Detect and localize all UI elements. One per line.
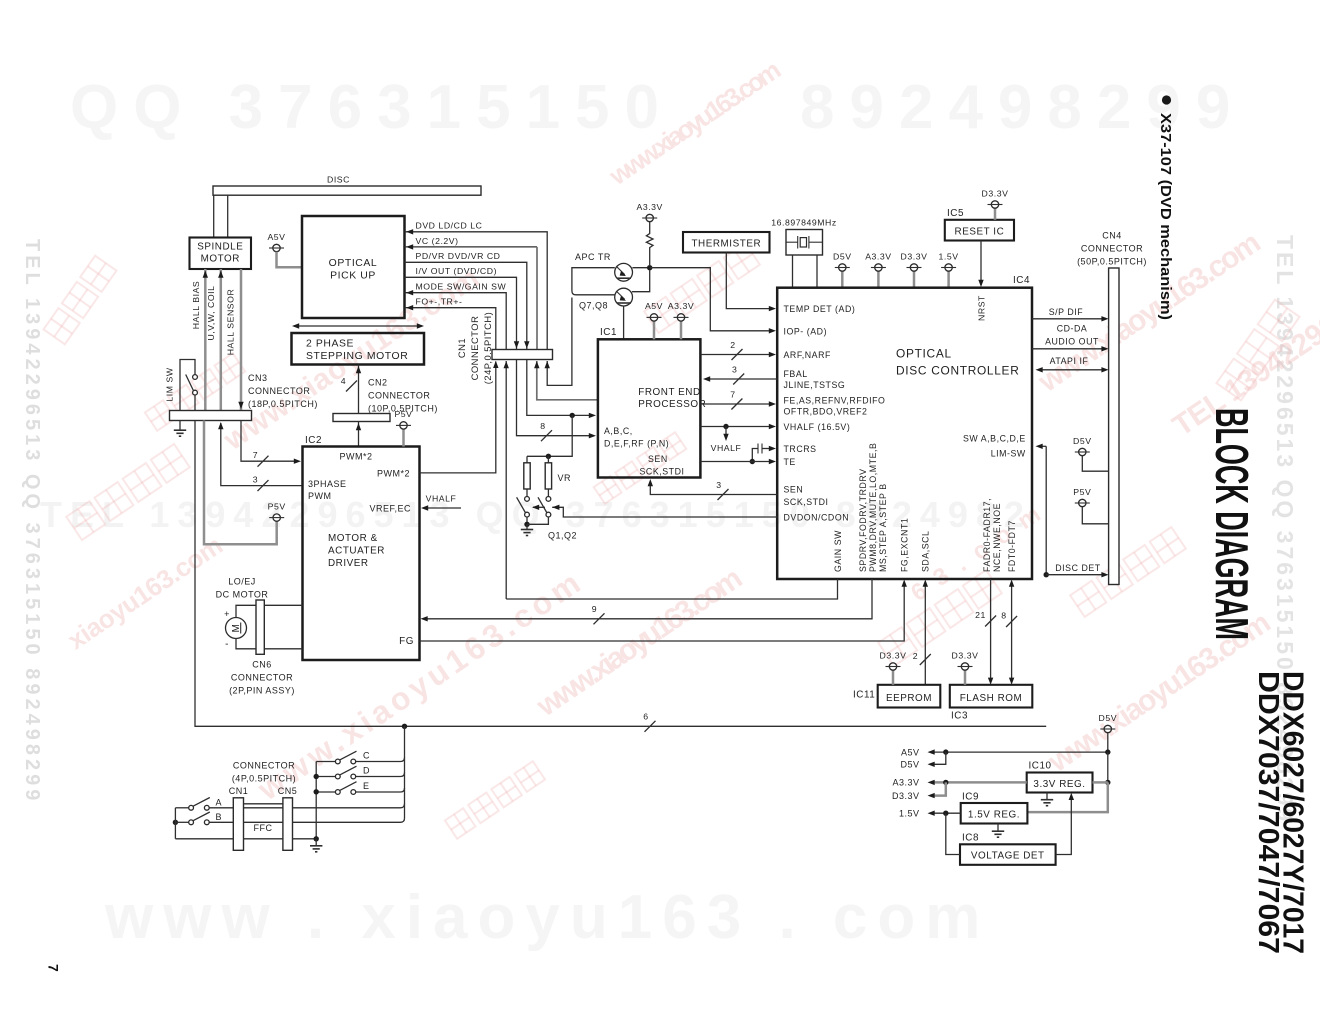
svg-text:D: D: [363, 766, 370, 776]
wire IC2 PWM*2 to CN1 focus drive: [420, 362, 496, 473]
wire IC1 to IC4 TE: [700, 461, 769, 463]
svg-text:TEMP DET (AD): TEMP DET (AD): [784, 304, 856, 314]
svg-text:IC9: IC9: [962, 792, 979, 803]
svg-text:www . xiaoyu163 . com: www . xiaoyu163 . com: [104, 883, 990, 952]
svg-text:CONNECTOR: CONNECTOR: [469, 316, 480, 381]
svg-text:Q1,Q2: Q1,Q2: [548, 531, 577, 541]
svg-text:STEPPING MOTOR: STEPPING MOTOR: [306, 351, 408, 362]
svg-text:PD/VR DVD/VR CD: PD/VR DVD/VR CD: [416, 251, 501, 261]
svg-text:ATAPI IF: ATAPI IF: [1050, 356, 1089, 366]
wire stepping motor to CN2 bus 4: [358, 365, 360, 414]
2 phase stepping motor box: [292, 333, 425, 365]
wire voltage det to 3.3V reg: [1056, 796, 1072, 854]
wire IC1 to IC4 VHALF: [700, 426, 769, 428]
svg-text:PROCESSOR: PROCESSOR: [638, 399, 706, 410]
svg-text:BLOCK DIAGRAM: BLOCK DIAGRAM: [1206, 408, 1258, 640]
optical pickup box: [302, 216, 405, 318]
svg-text:DVD LD/CD LC: DVD LD/CD LC: [416, 221, 483, 231]
svg-text:SEN: SEN: [784, 484, 804, 494]
svg-text:SDA,SCL: SDA,SCL: [921, 531, 931, 573]
svg-text:D3.3V: D3.3V: [901, 251, 928, 261]
svg-text:7: 7: [253, 450, 258, 460]
IC1 front end processor box: [598, 339, 701, 477]
svg-text:21: 21: [975, 610, 986, 620]
svg-text:DC MOTOR: DC MOTOR: [216, 590, 269, 600]
svg-text:(4P,0.5PITCH): (4P,0.5PITCH): [232, 774, 296, 784]
svg-text:P5V: P5V: [394, 409, 412, 419]
variable resistor VR pair: [526, 456, 528, 463]
wire IC4 to IC1 FBAL bus 3: [707, 378, 778, 380]
svg-text:OPTICAL: OPTICAL: [896, 347, 952, 361]
svg-text:TE: TE: [784, 457, 796, 467]
svg-text:ARF,NARF: ARF,NARF: [784, 350, 831, 360]
svg-text:GAIN SW: GAIN SW: [833, 530, 843, 572]
svg-text:HALL SENSOR: HALL SENSOR: [226, 289, 236, 356]
svg-text:IC5: IC5: [947, 208, 964, 219]
wire DISC DET: [1044, 572, 1049, 577]
switch commons to ground: [526, 517, 528, 524]
ground 3.3V reg: [1046, 793, 1048, 800]
wire IC4 FADR bus 21 to flash: [990, 579, 992, 681]
svg-text:(2P,PIN ASSY): (2P,PIN ASSY): [229, 686, 295, 696]
svg-text:LIM-SW: LIM-SW: [991, 448, 1026, 458]
switch A: [175, 807, 188, 809]
wire CN3 hall sensor to IC2 bus 7: [241, 421, 296, 462]
wire IC4 servo bus 9 to IC2: [424, 579, 873, 619]
wire VC from front end to CN1: [537, 361, 598, 400]
svg-text:FRONT END: FRONT END: [638, 387, 700, 398]
svg-text:TEL 13942296513 QQ 376315150 8: TEL 13942296513 QQ 376315150 892498299: [21, 239, 43, 804]
rail D5V down to regulators: [1107, 752, 1109, 782]
wire Q7 collector to junction: [632, 267, 649, 269]
svg-text:(24P,0.5PITCH): (24P,0.5PITCH): [482, 312, 493, 384]
CN5 ffc bar: [283, 798, 293, 851]
switch C: [316, 761, 335, 763]
svg-text:7: 7: [730, 390, 735, 400]
wire Q8 emitter to IC1: [623, 306, 625, 339]
svg-text:PWM: PWM: [308, 491, 332, 501]
svg-text:IC4: IC4: [1013, 275, 1030, 286]
svg-text:CONNECTOR: CONNECTOR: [231, 673, 293, 683]
switch D: [316, 776, 335, 778]
svg-text:VHALF: VHALF: [711, 443, 742, 453]
svg-text:IC2: IC2: [305, 435, 322, 446]
dc motor symbol: [226, 618, 247, 639]
svg-text:CONNECTOR: CONNECTOR: [248, 386, 310, 396]
svg-text:3.3V REG.: 3.3V REG.: [1033, 779, 1085, 790]
switch ground bus: [315, 762, 317, 840]
disc platter bar: [213, 186, 481, 195]
svg-text:FG: FG: [399, 636, 414, 647]
svg-text:A3.3V: A3.3V: [636, 202, 662, 212]
svg-text:D5V: D5V: [900, 760, 919, 770]
svg-text:D5V: D5V: [1073, 436, 1092, 446]
wire APC junction to IC4 IOP: [650, 268, 770, 331]
wire CN1 to front end bus 8: [517, 360, 593, 436]
svg-text:CONNECTOR: CONNECTOR: [368, 391, 430, 401]
svg-text:MOTOR: MOTOR: [201, 254, 240, 265]
svg-text:FFC: FFC: [254, 823, 273, 833]
svg-text:-: -: [225, 639, 229, 650]
svg-text:PWM8,DRV,MUTE,LO,MTE,B: PWM8,DRV,MUTE,LO,MTE,B: [868, 443, 878, 572]
svg-text:FE,AS,REFNV,RFDIFO: FE,AS,REFNV,RFDIFO: [784, 396, 886, 406]
svg-text:LIM SW: LIM SW: [165, 367, 175, 401]
svg-text:LO/EJ: LO/EJ: [228, 577, 256, 587]
svg-text:P5V: P5V: [268, 501, 286, 511]
svg-text:S/P DIF: S/P DIF: [1049, 307, 1084, 317]
svg-text:A: A: [216, 797, 223, 807]
svg-text:DVDON/CDON: DVDON/CDON: [784, 512, 850, 522]
svg-text:THERMISTER: THERMISTER: [691, 238, 761, 249]
svg-text:D5V: D5V: [833, 251, 852, 261]
svg-text:MODE SW/GAIN SW: MODE SW/GAIN SW: [416, 282, 507, 292]
svg-text:MS,STEP A,STEP B: MS,STEP A,STEP B: [878, 483, 888, 572]
svg-text:D3.3V: D3.3V: [952, 650, 979, 660]
CN2 connector bar: [333, 414, 390, 422]
svg-text:RESET IC: RESET IC: [955, 226, 1005, 237]
svg-text:CN1: CN1: [456, 338, 467, 358]
svg-text:CN3: CN3: [248, 373, 268, 383]
svg-text:C: C: [363, 751, 370, 761]
svg-text:VREF,EC: VREF,EC: [369, 504, 411, 514]
svg-text:8: 8: [1001, 611, 1006, 621]
CN3 connector bar: [170, 411, 252, 421]
transistor switch Q1: [525, 497, 530, 502]
svg-text:IC8: IC8: [962, 833, 979, 844]
CN3 ground: [179, 421, 181, 430]
svg-text:U,V,W, COIL: U,V,W, COIL: [206, 286, 216, 341]
FFC cable box: [244, 803, 283, 805]
svg-text:7: 7: [46, 964, 62, 972]
svg-text:PWM*2: PWM*2: [339, 452, 372, 462]
svg-text:1.5V: 1.5V: [899, 809, 920, 819]
svg-text:VHALF (16.5V): VHALF (16.5V): [784, 422, 851, 432]
wire IC1 to IC4 ARF bus 2: [700, 354, 769, 356]
svg-text:CN4: CN4: [1102, 231, 1122, 241]
wire CN1 to front end A,B,C bus: [527, 360, 592, 416]
wire Q8 to junction: [632, 270, 650, 292]
CN1 connector bar: [492, 350, 553, 360]
svg-text:A5V: A5V: [901, 747, 920, 757]
svg-text:IC1: IC1: [600, 327, 617, 338]
svg-text:+: +: [224, 609, 230, 619]
svg-text:3: 3: [716, 480, 721, 490]
CN1 ffc bar: [233, 798, 243, 851]
wire hall bias: [204, 269, 207, 411]
svg-text:6: 6: [643, 712, 648, 722]
thermister box: [683, 232, 770, 253]
wire reset to IC4 NRST: [980, 241, 982, 284]
svg-text:SEN: SEN: [648, 454, 668, 464]
svg-text:3: 3: [253, 474, 258, 484]
svg-text:DDX6027/6027Y/7017: DDX6027/6027Y/7017: [1277, 671, 1309, 954]
svg-text:FO+-,TR+-: FO+-,TR+-: [416, 297, 463, 307]
svg-text:A3.3V: A3.3V: [865, 251, 891, 261]
svg-text:CONNECTOR: CONNECTOR: [233, 761, 295, 771]
svg-text:P5V: P5V: [1073, 487, 1091, 497]
wire ground row to ground: [293, 838, 317, 840]
svg-text:VHALF: VHALF: [426, 494, 457, 504]
svg-text:SCK,STDI: SCK,STDI: [784, 497, 829, 507]
svg-text:FDT0-FDT7: FDT0-FDT7: [1007, 520, 1017, 572]
wire IC4 FDT bus 8 to flash: [1011, 583, 1013, 681]
wire D3.3V distribution: [931, 782, 946, 795]
spindle shaft wires: [213, 195, 215, 237]
svg-text:SPDRV,FODRV,TRDRV: SPDRV,FODRV,TRDRV: [858, 468, 868, 572]
svg-text:A5V: A5V: [645, 301, 663, 311]
svg-text:FLASH ROM: FLASH ROM: [960, 693, 1023, 704]
sled travel double arrow: [294, 325, 422, 327]
svg-text:VR: VR: [558, 473, 572, 483]
svg-text:D3.3V: D3.3V: [880, 650, 907, 660]
resistor R laser bias: [646, 222, 653, 265]
svg-text:X37-107 (DVD mechanism): X37-107 (DVD mechanism): [1157, 113, 1174, 320]
svg-text:CD-DA: CD-DA: [1057, 324, 1088, 334]
switch sense branch: [404, 726, 406, 818]
wire CN3 to P5V: [204, 421, 277, 545]
switch A B left bus: [174, 808, 176, 839]
svg-text:2 PHASE: 2 PHASE: [306, 339, 354, 350]
CN6 connector bar: [256, 600, 264, 654]
svg-text:APC TR: APC TR: [575, 252, 611, 262]
switch B: [173, 820, 178, 825]
wire IC1 to IC4 FE bus 7: [700, 403, 769, 405]
wire Q7 base loop to Q8: [572, 268, 615, 295]
svg-text:SPINDLE: SPINDLE: [197, 242, 243, 253]
wire A,B,C branch to VR: [527, 415, 572, 456]
wire motor to CN6 to IC2 top: [236, 605, 303, 617]
svg-text:9: 9: [592, 604, 597, 614]
wire UVW coil: [220, 269, 223, 411]
svg-text:3: 3: [732, 365, 737, 375]
svg-text:2: 2: [730, 340, 735, 350]
svg-text:QQ 376315150: QQ 376315150: [70, 73, 674, 142]
switch E: [316, 791, 335, 793]
VHALF stub arrow: [725, 427, 727, 438]
svg-text:ACTUATER: ACTUATER: [328, 546, 385, 557]
svg-text:Q7,Q8: Q7,Q8: [579, 301, 608, 311]
svg-text:IC10: IC10: [1029, 761, 1052, 772]
svg-text:1.5V: 1.5V: [939, 251, 959, 261]
svg-text:(18P,0.5PITCH): (18P,0.5PITCH): [248, 399, 318, 409]
svg-text:JLINE,TSTSG: JLINE,TSTSG: [784, 380, 846, 390]
IC4 optical disc controller box: [777, 288, 1032, 579]
svg-text:4: 4: [341, 376, 346, 386]
wire D5V distribution: [931, 752, 946, 764]
wire 1.5V distribution: [931, 812, 961, 814]
svg-text:IC3: IC3: [951, 711, 968, 722]
right margin title X37-107 DVD mechanism: [1162, 95, 1171, 104]
wire thermister to IC4 temp det: [726, 253, 770, 309]
svg-text:VC (2.2V): VC (2.2V): [416, 236, 459, 246]
svg-text:E: E: [363, 781, 370, 791]
svg-text:NCE,NWE,NOE: NCE,NWE,NOE: [992, 503, 1002, 572]
svg-text:2: 2: [913, 651, 918, 661]
svg-text:AUDIO OUT: AUDIO OUT: [1045, 337, 1099, 347]
wire IC2 FG to IC4: [420, 583, 905, 641]
wire VHALF into IC2 VREF,EC: [424, 507, 461, 509]
wire laser drive from APC to CN1: [547, 298, 572, 386]
spindle motor box: [190, 238, 252, 270]
wire IC4 DVDON/CDON to Q1 Q2: [552, 507, 777, 517]
wire gain sw from IC4 to CN1: [505, 361, 507, 599]
svg-text:8: 8: [540, 421, 545, 431]
wire IC2 3phase to CN3 bus 3: [221, 423, 303, 486]
svg-text:IC11: IC11: [853, 690, 875, 701]
svg-text:CONNECTOR: CONNECTOR: [1081, 244, 1143, 254]
svg-text:A,B,C,: A,B,C,: [604, 426, 633, 436]
IC2 motor and actuator driver box: [303, 447, 420, 661]
svg-text:B: B: [216, 812, 223, 822]
svg-text:NRST: NRST: [976, 295, 986, 321]
wire IC4 SDA SCL to EEPROM bus 2: [924, 583, 926, 685]
wire crystal to IC4: [792, 255, 794, 288]
svg-text:CN6: CN6: [252, 660, 272, 670]
transistor switch Q2: [546, 497, 551, 502]
wire A3.3V distribution: [931, 781, 1027, 784]
svg-text:A3.3V: A3.3V: [668, 301, 694, 311]
svg-text:PWM*2: PWM*2: [377, 469, 410, 479]
CN4 connector bar: [1109, 268, 1119, 585]
svg-text:FG,EXCNT1: FG,EXCNT1: [900, 518, 910, 572]
ground 1.5V reg: [997, 824, 999, 831]
svg-text:FADR0-FADR17,: FADR0-FADR17,: [982, 498, 992, 572]
svg-text:CN1: CN1: [229, 786, 249, 796]
svg-text:D3.3V: D3.3V: [892, 791, 920, 801]
wire IC4 GAIN SW to CN1: [506, 579, 837, 599]
svg-text:HALL BIAS: HALL BIAS: [191, 281, 201, 330]
wire hall sensor: [240, 269, 243, 411]
wire SW LIM-SW into IC4: [1039, 445, 1046, 447]
transistor Q7: [615, 263, 633, 281]
svg-text:DISC CONTROLLER: DISC CONTROLLER: [896, 364, 1019, 378]
svg-text:1.5V REG.: 1.5V REG.: [968, 809, 1020, 820]
svg-text:D5V: D5V: [1099, 713, 1118, 723]
svg-text:D,E,F,RF (P,N): D,E,F,RF (P,N): [604, 438, 669, 448]
svg-text:TRCRS: TRCRS: [784, 444, 817, 454]
wire B row through FFC: [209, 821, 233, 823]
svg-text:DRIVER: DRIVER: [328, 558, 369, 569]
svg-text:CN5: CN5: [278, 786, 298, 796]
svg-text:OFTR,BDO,VREF2: OFTR,BDO,VREF2: [784, 406, 868, 416]
svg-text:MOTOR &: MOTOR &: [328, 533, 378, 544]
wire motor to CN6 to IC2 bottom: [236, 639, 303, 649]
svg-text:VOLTAGE DET: VOLTAGE DET: [971, 851, 1045, 862]
svg-text:EEPROM: EEPROM: [886, 693, 932, 704]
svg-text:892498299: 892498299: [800, 73, 1245, 142]
wire 1.5V to voltage det: [946, 813, 960, 854]
svg-text:(50P,0.5PITCH): (50P,0.5PITCH): [1077, 257, 1147, 267]
svg-text:SCK,STDI: SCK,STDI: [640, 466, 685, 476]
svg-text:IOP- (AD): IOP- (AD): [784, 326, 828, 336]
svg-text:16.897849MHz: 16.897849MHz: [771, 218, 837, 228]
svg-text:FBAL: FBAL: [784, 369, 808, 379]
wire IC2 PWM to CN2: [358, 422, 360, 447]
svg-text:CN2: CN2: [368, 378, 388, 388]
svg-text:PICK UP: PICK UP: [330, 271, 376, 282]
FLASH ROM box IC3: [950, 685, 1033, 708]
wire A5V distribution: [931, 751, 1108, 753]
svg-text:D3.3V: D3.3V: [982, 188, 1009, 198]
svg-text:OPTICAL: OPTICAL: [329, 258, 378, 269]
wire IC4 SEN to IC1 bus 3: [650, 483, 777, 495]
svg-text:DISC: DISC: [327, 175, 350, 185]
svg-text:A3.3V: A3.3V: [892, 778, 919, 788]
capacitor TRCRS coupling: [761, 444, 763, 454]
svg-text:A5V: A5V: [267, 232, 285, 242]
svg-text:SW A,B,C,D,E: SW A,B,C,D,E: [963, 433, 1026, 443]
wire A row through FFC: [209, 807, 233, 809]
FFC ground row: [175, 838, 233, 840]
svg-text:DISC DET: DISC DET: [1055, 563, 1101, 573]
transistor Q8: [615, 288, 633, 306]
svg-text:I/V OUT (DVD/CD): I/V OUT (DVD/CD): [416, 266, 498, 276]
svg-text:3PHASE: 3PHASE: [308, 479, 347, 489]
wire LIM SW and switches to IC4 bus 6: [195, 421, 1046, 727]
